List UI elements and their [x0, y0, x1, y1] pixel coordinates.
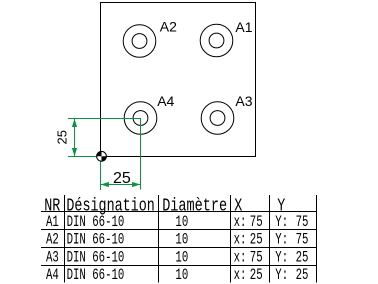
table horizontal line under header: [41, 211, 316, 213]
svg-text:Y:: Y:: [275, 249, 288, 266]
svg-text:10: 10: [175, 249, 188, 266]
extension line from hole A4 center, vertical: [140, 118, 142, 190]
vertical dimension line 25 with arrowheads: [72, 119, 77, 156]
table vertical line X/Y: [269, 195, 271, 283]
table vertical line Diametre/X: [230, 195, 232, 283]
svg-text:DIN 66-10: DIN 66-10: [67, 266, 125, 283]
svg-text:10: 10: [175, 266, 188, 283]
svg-text:75: 75: [296, 231, 309, 248]
svg-text:A1: A1: [46, 213, 59, 230]
svg-text:A2: A2: [46, 231, 59, 248]
svg-text:A2: A2: [160, 19, 177, 35]
table horizontal line under row A1: [41, 229, 316, 231]
svg-text:A1: A1: [235, 19, 252, 35]
table vertical line Designation/Diametre: [158, 195, 160, 283]
hole A2: [123, 25, 156, 58]
svg-text:x:: x:: [234, 249, 247, 266]
hole A3: [201, 102, 234, 135]
plate outline: [101, 3, 256, 157]
svg-text:75: 75: [250, 249, 263, 266]
table horizontal line under row A3: [41, 265, 316, 267]
svg-text:25: 25: [296, 266, 309, 283]
table vertical line NR/Designation: [64, 195, 66, 283]
svg-text:DIN 66-10: DIN 66-10: [67, 249, 125, 266]
hole A4: [124, 102, 157, 135]
svg-text:25: 25: [250, 231, 263, 248]
svg-text:A4: A4: [46, 266, 59, 283]
horizontal dimension line 25 with arrowheads: [101, 182, 141, 187]
extension line from origin, vertical: [100, 157, 102, 190]
svg-text:x:: x:: [234, 266, 247, 283]
svg-text:A3: A3: [235, 93, 252, 109]
svg-text:Y:: Y:: [275, 213, 288, 230]
origin symbol (datum point): [97, 151, 107, 161]
svg-text:x:: x:: [234, 213, 247, 230]
svg-text:A4: A4: [157, 93, 174, 109]
extension line from origin, horizontal: [68, 156, 101, 158]
svg-text:25: 25: [113, 170, 131, 187]
svg-text:DIN 66-10: DIN 66-10: [67, 231, 125, 248]
svg-text:25: 25: [296, 249, 309, 266]
svg-text:75: 75: [296, 213, 309, 230]
svg-text:Y:: Y:: [275, 266, 288, 283]
hole A1: [200, 24, 233, 57]
svg-text:Y:: Y:: [275, 231, 288, 248]
svg-text:25: 25: [250, 266, 263, 283]
extension line from hole A4 center, horizontal: [68, 118, 141, 120]
svg-text:75: 75: [250, 213, 263, 230]
svg-text:A3: A3: [46, 249, 59, 266]
svg-text:x:: x:: [234, 231, 247, 248]
svg-text:25: 25: [55, 130, 70, 144]
table horizontal line under row A2: [41, 247, 316, 249]
svg-text:DIN 66-10: DIN 66-10: [67, 213, 125, 230]
svg-text:10: 10: [175, 231, 188, 248]
table vertical line right border: [316, 195, 318, 283]
svg-text:Diamètre: Diamètre: [162, 196, 227, 216]
svg-text:10: 10: [175, 213, 188, 230]
